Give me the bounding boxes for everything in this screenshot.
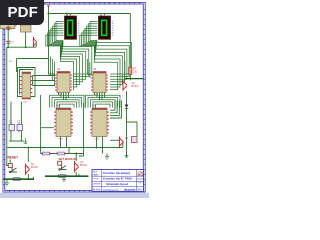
svg-text:RESET: RESET bbox=[8, 156, 19, 160]
svg-text:220: 220 bbox=[133, 71, 138, 74]
svg-text:Counter Up.pdsprj: Counter Up.pdsprj bbox=[103, 171, 130, 175]
svg-text:NAME:: NAME: bbox=[93, 174, 99, 177]
svg-text:2019: 2019 bbox=[137, 173, 143, 177]
svg-text:Counter Up IC 7490: Counter Up IC 7490 bbox=[103, 177, 132, 181]
svg-text:REV 1: REV 1 bbox=[138, 189, 145, 191]
svg-text:labcenter: labcenter bbox=[124, 187, 136, 191]
svg-text:BC547: BC547 bbox=[31, 166, 39, 169]
svg-text:TITLE:: TITLE: bbox=[93, 179, 99, 181]
svg-text:www.blogspot.com: www.blogspot.com bbox=[103, 188, 119, 191]
svg-text:7447: 7447 bbox=[58, 94, 64, 96]
svg-text:DESIGN:: DESIGN: bbox=[93, 184, 101, 186]
svg-text:BC547: BC547 bbox=[80, 164, 88, 167]
svg-text:7447: 7447 bbox=[94, 94, 100, 96]
svg-text:7490: 7490 bbox=[58, 139, 64, 141]
svg-text:A4 Sheet: A4 Sheet bbox=[93, 188, 101, 191]
svg-text:SET MANUAL: SET MANUAL bbox=[59, 157, 78, 161]
svg-text:1 of 1: 1 of 1 bbox=[138, 182, 144, 184]
svg-text:FILE:: FILE: bbox=[93, 172, 98, 174]
svg-text:7490: 7490 bbox=[94, 139, 100, 141]
svg-text:7490: 7490 bbox=[23, 102, 29, 104]
svg-text:Schematic layout: Schematic layout bbox=[106, 182, 128, 186]
svg-text:BC547: BC547 bbox=[132, 85, 140, 88]
